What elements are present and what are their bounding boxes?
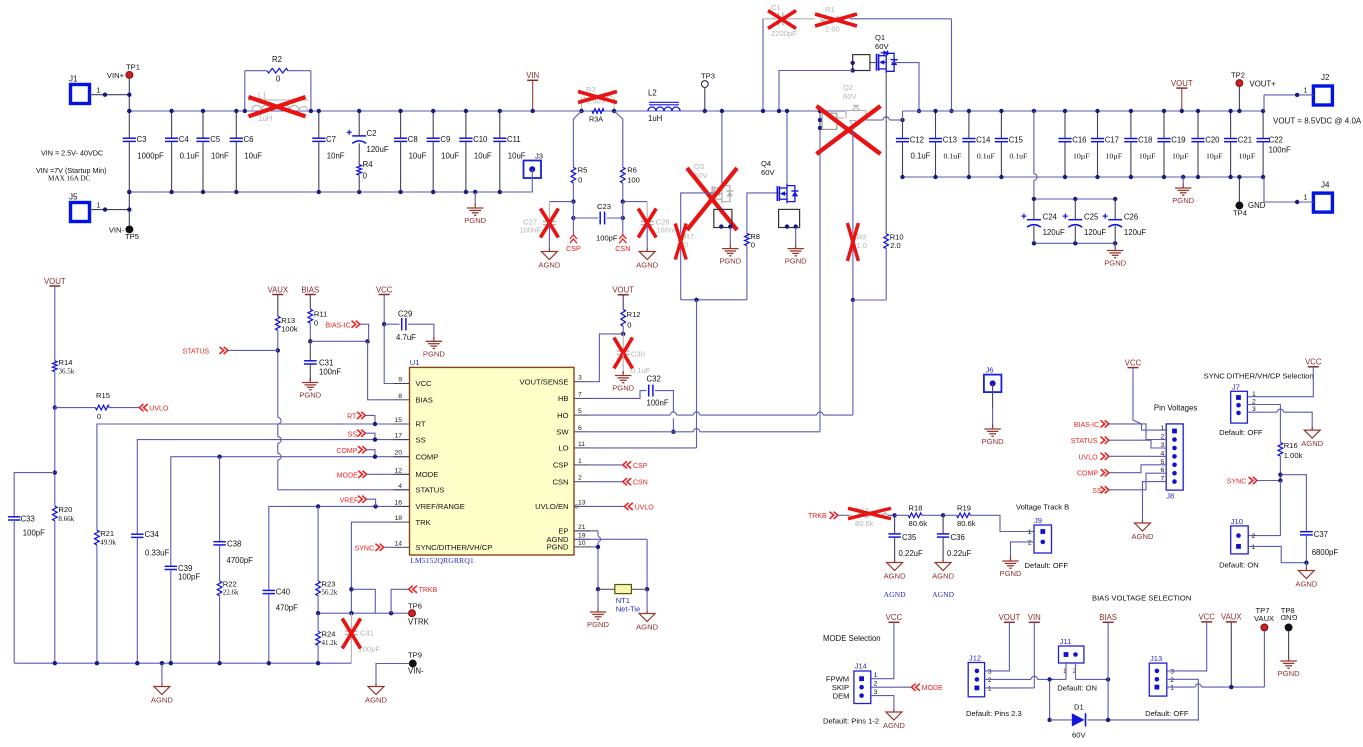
svg-text:VREF: VREF bbox=[340, 497, 359, 504]
svg-text:100nF: 100nF bbox=[319, 368, 341, 377]
wire AGND rail bbox=[14, 662, 351, 664]
pin 11 LO bbox=[574, 447, 590, 449]
svg-text:J8: J8 bbox=[1166, 492, 1174, 501]
svg-text:AGND: AGND bbox=[538, 261, 560, 270]
svg-text:C1: C1 bbox=[771, 3, 781, 12]
svg-text:16: 16 bbox=[394, 499, 402, 506]
svg-text:J1: J1 bbox=[69, 75, 78, 84]
test point TP5 bbox=[126, 226, 133, 233]
svg-text:Default: ON: Default: ON bbox=[1057, 684, 1097, 693]
svg-text:PGND: PGND bbox=[547, 543, 569, 552]
ground PGND input rail bbox=[473, 190, 477, 194]
svg-text:C38: C38 bbox=[227, 540, 241, 549]
svg-text:2: 2 bbox=[1028, 539, 1032, 546]
wire R18 node bbox=[892, 513, 896, 517]
svg-text:2.0: 2.0 bbox=[890, 241, 901, 250]
ground PGND under J6 bbox=[992, 425, 994, 426]
svg-text:MODE: MODE bbox=[922, 685, 943, 692]
red X over R1 bbox=[815, 14, 857, 26]
svg-text:C29: C29 bbox=[398, 310, 412, 319]
wire SW to C12 column bbox=[902, 111, 904, 120]
wire J7 pin2 to R16 bbox=[1247, 405, 1280, 443]
wire bulk cap rail top bbox=[1034, 198, 1115, 200]
svg-text:PGND: PGND bbox=[1278, 669, 1300, 678]
svg-text:SS: SS bbox=[348, 431, 358, 438]
svg-text:VCC: VCC bbox=[1305, 358, 1322, 367]
capacitor C24 bbox=[1033, 199, 1035, 220]
capacitor C27 (DNP) bbox=[549, 201, 573, 203]
net label CSN bbox=[619, 235, 626, 239]
wire BIAS node bbox=[310, 340, 367, 342]
svg-text:R18: R18 bbox=[909, 504, 923, 513]
capacitor C28 (DNP) bbox=[623, 201, 647, 203]
svg-text:R2: R2 bbox=[272, 55, 282, 64]
svg-text:Pin Voltages: Pin Voltages bbox=[1154, 403, 1197, 412]
svg-text:J13: J13 bbox=[1150, 654, 1162, 663]
svg-text:13: 13 bbox=[578, 499, 586, 506]
svg-text:2: 2 bbox=[1170, 677, 1174, 684]
wire AGND pin line bbox=[574, 538, 647, 540]
ground AGND rail bbox=[161, 663, 163, 683]
capacitor C2 bbox=[358, 111, 360, 136]
resistor R6 bbox=[621, 167, 626, 183]
svg-text:TRK: TRK bbox=[416, 518, 431, 527]
ground PGND under J9 bbox=[1010, 557, 1012, 559]
svg-text:VAUX: VAUX bbox=[1221, 613, 1242, 622]
svg-text:12: 12 bbox=[394, 467, 402, 474]
header J14 bbox=[854, 671, 871, 704]
svg-text:VCC: VCC bbox=[1198, 613, 1215, 622]
ground PGND under NT1 bbox=[597, 589, 599, 608]
svg-text:TP2: TP2 bbox=[1231, 70, 1245, 79]
capacitor C22 bbox=[1262, 111, 1264, 139]
svg-text:100: 100 bbox=[627, 176, 640, 185]
wire J9 pin2 to PGND bbox=[1011, 542, 1035, 559]
ground AGND under C36 bbox=[942, 560, 944, 562]
svg-text:19: 19 bbox=[578, 532, 586, 539]
gate box for Q1 bbox=[853, 55, 870, 71]
svg-text:VIN: VIN bbox=[526, 71, 539, 80]
svg-text:C32: C32 bbox=[647, 375, 661, 384]
red X over C28 bbox=[638, 209, 656, 238]
wire gate drive rail to LO bbox=[681, 299, 747, 301]
capacitor C11 bbox=[499, 111, 501, 138]
connector J2 bbox=[1313, 86, 1332, 105]
test point TP1 bbox=[126, 72, 133, 79]
pin 10 PGND bbox=[574, 546, 590, 548]
svg-text:0.1uF: 0.1uF bbox=[977, 152, 996, 161]
svg-text:CSN: CSN bbox=[552, 477, 568, 486]
header J12 bbox=[968, 663, 984, 697]
svg-text:470pF: 470pF bbox=[276, 604, 298, 613]
net label UVLO pin bbox=[575, 505, 578, 508]
svg-text:UVLO: UVLO bbox=[635, 504, 655, 511]
svg-text:VOUT/SENSE: VOUT/SENSE bbox=[520, 377, 569, 386]
svg-text:COMP: COMP bbox=[336, 448, 357, 455]
ground AGND under C37 bbox=[1305, 563, 1307, 568]
svg-text:1: 1 bbox=[1252, 391, 1256, 398]
svg-text:8.66k: 8.66k bbox=[58, 515, 74, 523]
svg-text:MODE Selection: MODE Selection bbox=[823, 634, 881, 643]
pin 21 EP bbox=[574, 530, 590, 532]
svg-text:0.1uF: 0.1uF bbox=[180, 152, 200, 161]
ground PGND under C29 bbox=[408, 324, 434, 339]
svg-text:120uF: 120uF bbox=[1124, 228, 1146, 237]
svg-text:SYNC/DITHER/VH/CP: SYNC/DITHER/VH/CP bbox=[416, 543, 493, 552]
svg-text:Q1: Q1 bbox=[875, 33, 885, 42]
connector J6 bbox=[984, 375, 1002, 393]
capacitor C17 bbox=[1097, 111, 1099, 139]
svg-text:C40: C40 bbox=[276, 587, 291, 596]
pad box under Q4 bbox=[779, 209, 800, 227]
pad box under Q3 bbox=[714, 209, 732, 227]
svg-text:Default: OFF: Default: OFF bbox=[1025, 561, 1069, 570]
resistor R4 bbox=[358, 143, 360, 164]
svg-text:R22: R22 bbox=[223, 580, 237, 589]
wire R19 node bbox=[941, 513, 945, 517]
wire TP9 to AGND bbox=[376, 664, 409, 685]
ground PGND under C30 bbox=[622, 355, 624, 374]
svg-text:0: 0 bbox=[627, 321, 631, 330]
svg-text:AGND: AGND bbox=[636, 623, 658, 632]
svg-text:VIN: VIN bbox=[1028, 613, 1041, 622]
svg-text:J4: J4 bbox=[1321, 181, 1330, 190]
svg-text:HO: HO bbox=[557, 411, 568, 420]
capacitor C34 bbox=[131, 533, 143, 535]
svg-text:1uH: 1uH bbox=[648, 114, 662, 123]
net label CSP pin bbox=[590, 464, 623, 466]
svg-text:10µF: 10µF bbox=[1172, 152, 1189, 161]
svg-text:AGND: AGND bbox=[1301, 439, 1323, 448]
svg-text:C5: C5 bbox=[210, 135, 221, 144]
svg-text:C23: C23 bbox=[597, 202, 611, 211]
svg-text:10: 10 bbox=[578, 540, 586, 547]
capacitor C12 bbox=[902, 120, 904, 139]
svg-text:15: 15 bbox=[394, 417, 402, 424]
svg-text:0: 0 bbox=[684, 241, 688, 250]
capacitor C37 bbox=[1280, 475, 1306, 532]
svg-text:VCC: VCC bbox=[886, 613, 903, 622]
wire BIAS-IC to pin8 bbox=[368, 341, 394, 400]
pin 12 MODE bbox=[394, 473, 410, 475]
capacitor C15 bbox=[1000, 111, 1002, 139]
svg-text:100pF: 100pF bbox=[596, 234, 618, 243]
svg-text:49.9k: 49.9k bbox=[100, 539, 116, 547]
pin 1 CSP bbox=[574, 464, 590, 466]
svg-text:TRKB: TRKB bbox=[419, 587, 438, 594]
red X over L1 bbox=[249, 97, 306, 116]
svg-text:10nF: 10nF bbox=[211, 152, 229, 161]
svg-text:0: 0 bbox=[97, 412, 101, 421]
wire Q3 gate to R7 bbox=[681, 193, 714, 234]
svg-text:10uF: 10uF bbox=[244, 152, 262, 161]
pin 18 TRK bbox=[394, 521, 410, 523]
capacitor C19 bbox=[1163, 111, 1165, 139]
svg-text:J2: J2 bbox=[1321, 73, 1330, 82]
svg-text:Q3: Q3 bbox=[694, 162, 704, 171]
resistor R5 bbox=[571, 167, 576, 183]
wire HO vertical through R9 bbox=[852, 131, 854, 234]
svg-text:C37: C37 bbox=[1314, 530, 1328, 539]
pin 13 UVLO/EN bbox=[574, 505, 590, 507]
svg-text:TP3: TP3 bbox=[701, 72, 715, 81]
svg-text:Q4: Q4 bbox=[761, 159, 771, 168]
svg-text:Default: OFF: Default: OFF bbox=[1145, 709, 1189, 718]
svg-text:PGND: PGND bbox=[1172, 196, 1194, 205]
svg-text:1.0: 1.0 bbox=[856, 241, 867, 250]
svg-text:VIN+: VIN+ bbox=[107, 71, 125, 80]
svg-text:AGND: AGND bbox=[365, 696, 387, 705]
svg-text:2200pF: 2200pF bbox=[771, 29, 797, 38]
svg-text:80.6k: 80.6k bbox=[909, 519, 928, 528]
svg-text:UVLO: UVLO bbox=[1079, 454, 1099, 461]
svg-text:60V: 60V bbox=[761, 168, 775, 177]
capacitor C13 bbox=[935, 111, 937, 139]
wire J10 pin1 to AGND bbox=[1248, 546, 1306, 562]
svg-text:SW: SW bbox=[556, 428, 569, 437]
resistor R1 (DNP) bbox=[820, 17, 850, 22]
svg-text:0: 0 bbox=[363, 172, 368, 181]
svg-text:1: 1 bbox=[1304, 195, 1308, 202]
svg-text:0.1uF: 0.1uF bbox=[944, 152, 963, 161]
svg-text:6800pF: 6800pF bbox=[1312, 548, 1339, 557]
svg-text:PGND: PGND bbox=[587, 620, 609, 629]
svg-text:4700pF: 4700pF bbox=[227, 556, 254, 565]
wire bulk cap rail bottom bbox=[1034, 242, 1115, 244]
wire VOUT/SENSE net bbox=[590, 334, 623, 382]
resistor R13 bbox=[276, 316, 281, 330]
wire TRKB jog bbox=[351, 589, 375, 613]
resistor R11 bbox=[308, 309, 313, 323]
net label CSN pin bbox=[590, 481, 623, 483]
test point TP4 bbox=[1236, 202, 1243, 209]
svg-text:BIAS: BIAS bbox=[1099, 613, 1117, 622]
svg-text:SS: SS bbox=[1092, 488, 1102, 495]
resistor R19 bbox=[943, 514, 957, 516]
svg-text:22.6k: 22.6k bbox=[223, 589, 239, 597]
svg-text:RT: RT bbox=[416, 420, 426, 429]
svg-text:60V: 60V bbox=[1072, 731, 1086, 740]
svg-text:AGND: AGND bbox=[636, 261, 658, 270]
wire D1 row bbox=[1049, 679, 1051, 720]
svg-text:J10: J10 bbox=[1231, 517, 1243, 526]
test point TP2 bbox=[1236, 80, 1243, 87]
resistor R8 bbox=[745, 234, 750, 246]
svg-text:0: 0 bbox=[751, 241, 755, 250]
svg-text:4.7uF: 4.7uF bbox=[396, 333, 416, 342]
svg-text:CSN: CSN bbox=[633, 480, 648, 487]
svg-text:C19: C19 bbox=[1171, 136, 1185, 145]
svg-text:0.22uF: 0.22uF bbox=[947, 549, 972, 558]
capacitor C30 (DNP) bbox=[622, 334, 624, 351]
wire STATUS column R13 bbox=[277, 350, 279, 417]
wire Q2 source to output bbox=[866, 119, 883, 121]
pin 3 VOUT/SENSE bbox=[574, 381, 590, 383]
svg-text:1: 1 bbox=[1170, 685, 1174, 692]
svg-text:C10: C10 bbox=[473, 135, 488, 144]
svg-text:3: 3 bbox=[988, 668, 992, 675]
svg-text:PGND: PGND bbox=[1104, 259, 1126, 268]
svg-text:R15: R15 bbox=[96, 391, 110, 400]
svg-text:0: 0 bbox=[314, 319, 318, 328]
pin 9 VCC bbox=[394, 383, 410, 385]
svg-text:C30: C30 bbox=[631, 350, 645, 359]
svg-text:2: 2 bbox=[578, 475, 582, 482]
svg-text:GND: GND bbox=[1280, 613, 1297, 622]
svg-text:Default: OFF: Default: OFF bbox=[1219, 428, 1263, 437]
wire output rail bottom bbox=[903, 176, 1265, 178]
svg-text:PGND: PGND bbox=[982, 437, 1004, 446]
wire EP PGND vertical bbox=[574, 530, 598, 532]
resistor R14 bbox=[53, 361, 58, 372]
header J7 bbox=[1231, 391, 1248, 423]
wire Q1 drain to output rail bbox=[870, 62, 878, 64]
wire LO line bbox=[590, 447, 697, 449]
capacitor C35 bbox=[894, 515, 896, 534]
svg-text:J5: J5 bbox=[69, 193, 78, 202]
red X over R9 bbox=[847, 223, 858, 261]
resistor R18 bbox=[908, 513, 922, 518]
svg-text:COMP: COMP bbox=[416, 452, 439, 461]
svg-text:Net-Tie: Net-Tie bbox=[616, 605, 641, 614]
svg-text:CSP: CSP bbox=[633, 463, 648, 470]
svg-text:3: 3 bbox=[874, 689, 878, 696]
resistor R3 (DNP) bbox=[581, 97, 583, 111]
svg-text:3: 3 bbox=[1170, 668, 1174, 675]
resistor R3A bbox=[592, 109, 604, 114]
svg-text:10uF: 10uF bbox=[474, 152, 492, 161]
ground AGND sync bbox=[1311, 427, 1313, 429]
svg-text:PGND: PGND bbox=[612, 384, 634, 393]
wire J8 pin7 to AGND bbox=[1143, 482, 1167, 522]
connector J3 bbox=[524, 161, 542, 179]
wire J11 pin2 to BIAS bbox=[1076, 678, 1109, 680]
svg-text:21: 21 bbox=[578, 524, 586, 531]
svg-text:TP5: TP5 bbox=[125, 232, 139, 241]
svg-text:UVLO: UVLO bbox=[149, 406, 169, 413]
wire RT line bbox=[97, 424, 410, 530]
connector J1 bbox=[71, 85, 90, 104]
svg-text:R19: R19 bbox=[957, 504, 971, 513]
svg-text:TP4: TP4 bbox=[1233, 209, 1247, 218]
resistor R9 (DNP) bbox=[851, 234, 856, 249]
svg-text:C4: C4 bbox=[179, 135, 190, 144]
svg-text:R12: R12 bbox=[627, 310, 641, 319]
wire C32 to SW bbox=[655, 391, 673, 412]
header J11 bbox=[1059, 646, 1084, 663]
svg-text:120uF: 120uF bbox=[367, 145, 389, 154]
svg-text:COMP: COMP bbox=[1077, 471, 1098, 478]
pin 8 BIAS bbox=[394, 399, 410, 401]
svg-text:C14: C14 bbox=[976, 136, 991, 145]
svg-text:2: 2 bbox=[1252, 533, 1256, 540]
svg-text:10µF: 10µF bbox=[1206, 152, 1223, 161]
capacitor C38 bbox=[219, 457, 221, 542]
capacitor C7 bbox=[318, 111, 320, 138]
svg-text:J6: J6 bbox=[986, 365, 994, 374]
svg-text:CSN: CSN bbox=[615, 244, 630, 253]
svg-text:4: 4 bbox=[398, 483, 402, 490]
svg-text:10µF: 10µF bbox=[1073, 152, 1090, 161]
capacitor C29 bbox=[384, 323, 399, 325]
ground AGND under J14 bbox=[893, 709, 895, 711]
svg-text:STATUS: STATUS bbox=[183, 349, 210, 356]
ground AGND under J8 bbox=[1142, 520, 1144, 522]
ground PGND under TP8 bbox=[1288, 657, 1290, 658]
node UVLO divider tap bbox=[53, 405, 57, 409]
net label TRKB at TP6 bbox=[391, 589, 409, 613]
svg-text:6: 6 bbox=[578, 425, 582, 432]
svg-text:SYNC: SYNC bbox=[355, 545, 374, 552]
resistor R24 bbox=[316, 631, 321, 645]
svg-text:R16: R16 bbox=[1284, 441, 1298, 450]
ground PGND under Q4 bbox=[795, 228, 797, 245]
svg-text:AGND: AGND bbox=[884, 590, 906, 599]
red X over C1 bbox=[768, 11, 796, 29]
svg-text:TP6: TP6 bbox=[408, 602, 422, 611]
capacitor C31 bbox=[309, 341, 311, 361]
svg-text:SS: SS bbox=[416, 435, 426, 444]
capacitor C25 bbox=[1074, 199, 1076, 220]
test point TP3 bbox=[701, 81, 708, 88]
svg-text:C21: C21 bbox=[1238, 136, 1252, 145]
wire input bus bbox=[129, 110, 846, 112]
wire TP1 to bus bbox=[128, 78, 130, 111]
capacitor C14 bbox=[968, 111, 970, 139]
svg-text:20: 20 bbox=[394, 450, 402, 457]
svg-text:80.6k: 80.6k bbox=[855, 519, 874, 528]
svg-text:VAUX: VAUX bbox=[267, 285, 288, 294]
svg-text:L2: L2 bbox=[648, 89, 657, 98]
svg-text:BIAS: BIAS bbox=[416, 396, 433, 405]
wire Q4 gate to R8 bbox=[747, 193, 776, 234]
resistor R20 bbox=[53, 506, 58, 521]
wire J13 pin2 loop bbox=[1167, 679, 1199, 720]
svg-text:C36: C36 bbox=[951, 533, 965, 542]
svg-text:AGND: AGND bbox=[1132, 532, 1154, 541]
red X over C30 bbox=[614, 338, 633, 369]
svg-text:Default: Pins 2.3: Default: Pins 2.3 bbox=[966, 709, 1022, 718]
svg-text:C41: C41 bbox=[360, 629, 374, 638]
svg-text:Default: Pins 1-2: Default: Pins 1-2 bbox=[823, 717, 879, 726]
svg-text:R20: R20 bbox=[58, 505, 72, 514]
capacitor C8 bbox=[400, 111, 402, 138]
svg-text:GND: GND bbox=[1248, 201, 1266, 210]
capacitor C41 (DNP) bbox=[350, 613, 352, 631]
svg-text:R5: R5 bbox=[578, 166, 588, 175]
svg-text:2: 2 bbox=[874, 681, 878, 688]
svg-text:10µF: 10µF bbox=[1239, 152, 1256, 161]
resistor R17 (DNP) bbox=[851, 513, 888, 518]
svg-text:VCC: VCC bbox=[416, 379, 433, 388]
wire SW vertical bbox=[819, 111, 821, 432]
svg-text:VOUT: VOUT bbox=[44, 277, 66, 286]
wire TRK node rail bbox=[318, 612, 409, 614]
svg-text:1: 1 bbox=[1304, 88, 1308, 95]
connector J5 bbox=[71, 203, 90, 222]
svg-text:18: 18 bbox=[394, 515, 402, 522]
ground PGND under C31 bbox=[309, 364, 311, 381]
svg-text:3: 3 bbox=[578, 375, 582, 382]
test point TP7 bbox=[1261, 624, 1268, 631]
svg-text:C24: C24 bbox=[1043, 213, 1058, 222]
capacitor C6 bbox=[235, 111, 237, 138]
net label CSP bbox=[570, 235, 577, 239]
connector J4 bbox=[1313, 193, 1332, 212]
svg-text:80.6k: 80.6k bbox=[957, 519, 976, 528]
capacitor C10 bbox=[465, 111, 467, 138]
svg-text:UVLO/EN: UVLO/EN bbox=[535, 502, 568, 511]
